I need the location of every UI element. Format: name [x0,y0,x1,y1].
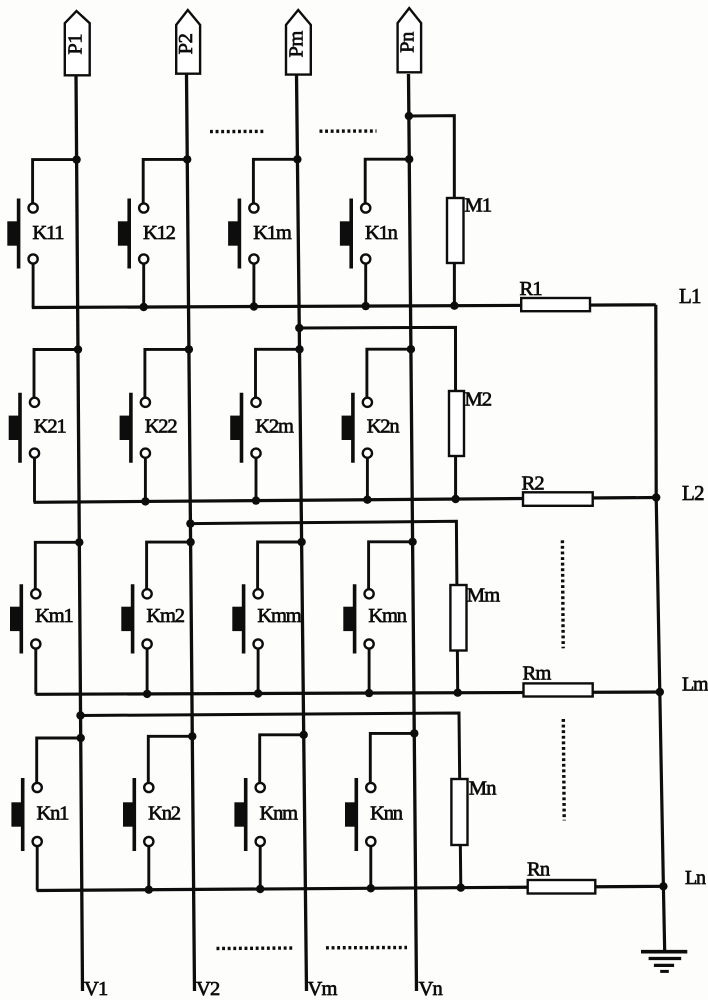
node junction Pn/M1 feed [405,112,413,120]
node junction Pm/K2m branch [295,345,303,353]
wire row line L2 (switch commons to R2) [34,498,657,503]
svg-text:Ln: Ln [685,867,706,889]
node junction P1/Kn1 branch [77,734,85,742]
svg-text:Rm: Rm [523,663,552,685]
wire switch K2m bottom lead [255,453,258,500]
svg-text:Km2: Km2 [146,605,184,627]
node junction K2m/row line L2 [252,496,260,504]
wire switch K1n bottom lead [364,259,367,306]
wire switch K2n bottom lead [366,453,369,500]
svg-text:K12: K12 [143,222,176,244]
node junction Km2/row line Lm [143,690,151,698]
wire row line Ln (switch commons to Rn) [37,886,664,890]
node junction M1/row L1 [450,302,458,310]
wire row line Lm (switch commons to Rm) [36,692,660,694]
svg-text:Vn: Vn [419,978,443,1000]
node junction Pn/Knn branch [410,729,418,737]
wire switch Kmm bottom lead [257,644,260,694]
svg-text:Pm: Pm [286,31,308,58]
switch K21 (push button) [9,393,39,463]
dotted continuation (top columns, between P2 and Pm) [210,130,264,134]
dotted continuation (rows, between L2 and Lm) [561,540,565,648]
svg-text:Mn: Mn [469,778,496,800]
wire switch K1m top branch [253,159,297,208]
switch K2m (push button) [230,393,260,463]
wire switch K21 top branch [34,350,78,403]
resistor Rm [524,683,593,696]
wire switch K22 top branch [145,349,189,402]
svg-text:K21: K21 [34,416,67,438]
switch Kn2 (push button) [123,778,153,851]
node junction P2/Kn2 branch [188,732,196,740]
switch Knm (push button) [234,778,264,851]
svg-text:L2: L2 [682,481,704,505]
node junction Kn2/row line Ln [145,886,153,894]
resistor Mn [451,779,467,845]
svg-text:V2: V2 [196,978,220,1000]
wire output bus L1-L2-Lm-Ln down to ground [656,305,665,952]
node junction Mm/row Lm [454,689,462,697]
node junction Kmn/row line Lm [365,689,373,697]
dotted continuation (bottom columns, between V2 and Vm) [217,946,294,950]
node junction Pm/M2 feed [295,324,303,332]
svg-text:Knm: Knm [260,803,299,825]
node junction Pn/K2n branch [407,345,415,353]
resistor M1 [447,198,464,263]
svg-text:M2: M2 [465,389,492,411]
svg-text:Lm: Lm [682,674,708,696]
wire switch K11 bottom lead [32,259,35,308]
wire row line L1 (switch commons to R1) [32,305,656,308]
svg-text:Km1: Km1 [35,605,73,627]
node junction P1/Mn feed [76,711,84,719]
resistor M2 [449,391,464,456]
switch Kmm (push button) [232,584,262,653]
wire switch Kmm top branch [258,542,302,594]
node junction K12/row line L1 [140,303,148,311]
wire switch Km1 top branch [35,542,79,594]
node junction Pn/Kmn branch [408,538,416,546]
node junction Lm/bus [656,688,664,696]
wire switch Kn1 bottom lead [36,842,39,891]
svg-text:K22: K22 [145,416,178,438]
node junction M2/row L2 [451,495,459,503]
svg-text:Knn: Knn [370,803,403,825]
node junction K1m/row line L1 [250,302,258,310]
node junction K22/row line L2 [141,497,149,505]
svg-text:K11: K11 [32,222,64,244]
node junction Pn/K1n branch [405,155,413,163]
svg-text:P1: P1 [64,34,86,55]
wire column P2 (vertical bus P2 to V2) [187,74,195,991]
dotted continuation (bottom columns, between Vm and Vn) [326,946,407,950]
terminal flag P2 [176,10,200,74]
wire switch Knn bottom lead [369,842,372,889]
node junction Pm/Kmm branch [297,538,305,546]
terminal flag Pm [286,10,311,75]
wire switch K2n top branch [367,349,411,402]
wire switch Knm top branch [260,735,304,788]
switch Kn1 (push button) [11,778,41,851]
wire Mn feed from P1 and drop to row Ln [81,713,461,888]
wire column Pn (vertical bus Pn to Vn) [409,74,417,991]
svg-text:Rn: Rn [527,859,550,881]
wire switch K12 top branch [143,159,187,208]
wire column P1 (vertical bus P1 to V1) [76,74,83,991]
node junction Knm/row line Ln [256,885,264,893]
switch K12 (push button) [118,199,148,269]
svg-text:V1: V1 [84,978,108,1000]
wire column Pm (vertical bus Pm to Vm) [297,74,307,991]
node junction Mn/row Ln [457,884,465,892]
wire switch K2m top branch [256,349,300,402]
wire switch K1n top branch [365,159,409,208]
wire switch Kmn top branch [369,542,413,594]
svg-text:K1n: K1n [365,222,398,244]
wire M1 feed from Pn and drop to row L1 [409,116,455,306]
wire switch K21 bottom lead [33,453,36,502]
svg-text:Pn: Pn [397,32,419,53]
switch Knn (push button) [345,778,375,851]
node junction P1/K21 branch [74,345,82,353]
node junction L2/bus [652,493,660,501]
switch Km2 (push button) [121,584,151,653]
ground [641,952,687,972]
dotted continuation (top columns, between Pm and Pn) [320,129,377,133]
svg-text:L1: L1 [679,284,701,308]
switch K1n (push button) [340,199,370,269]
node junction K2n/row line L2 [363,496,371,504]
wire Mm feed from P2 and drop to row Lm [190,521,457,692]
wire switch K11 top branch [33,160,77,208]
resistor Mm [450,585,466,651]
svg-text:Kmm: Kmm [257,605,301,627]
wire switch Kn2 top branch [148,736,192,787]
resistor R2 [523,492,593,506]
node junction P2/Km2 branch [186,538,194,546]
wire switch Km2 top branch [147,542,191,594]
terminal flag Pn [398,8,422,72]
node junction Ln/bus [659,882,667,890]
node junction P1/Km1 branch [75,538,83,546]
switch K22 (push button) [120,393,150,463]
svg-text:R1: R1 [520,278,543,300]
svg-text:Vm: Vm [308,978,338,1000]
wire switch Km2 bottom lead [146,644,149,694]
wire switch Kn2 bottom lead [147,842,150,890]
node junction P2/K22 branch [185,345,193,353]
dotted continuation (rows, between Lm and Ln) [562,719,566,821]
wire switch Kn1 top branch [37,738,81,788]
wire switch K22 bottom lead [144,453,147,501]
switch Km1 (push button) [10,584,40,653]
wire switch Knm bottom lead [259,842,262,890]
wire M2 feed from Pm and drop to row L2 [299,327,455,499]
svg-text:Mm: Mm [467,585,500,607]
node junction P2/K12 branch [183,155,191,163]
svg-text:Kn1: Kn1 [37,803,70,825]
resistor Rn [528,880,596,894]
terminal flag P1 [65,11,90,75]
resistor R1 [521,298,590,311]
wire switch K12 bottom lead [142,259,145,307]
switch K1m (push button) [228,199,258,269]
wire switch Kmn bottom lead [368,644,371,693]
node junction P1/K11 branch [72,155,80,163]
svg-text:Kmn: Kmn [368,605,406,627]
wire switch K1m bottom lead [252,259,255,307]
svg-text:K2m: K2m [255,416,294,438]
node junction Pm/K1m branch [293,155,301,163]
svg-text:M1: M1 [465,195,492,217]
svg-text:R2: R2 [522,473,545,495]
wire switch Knn top branch [370,733,414,787]
svg-text:K2n: K2n [367,416,400,438]
switch K2n (push button) [342,393,372,463]
svg-text:Kn2: Kn2 [148,803,181,825]
switch K11 (push button) [7,199,37,269]
node junction K1n/row line L1 [362,302,370,310]
svg-text:P2: P2 [175,33,197,54]
node junction P2/Mm feed [186,519,194,527]
svg-text:K1m: K1m [253,222,292,244]
node junction Pm/Knm branch [300,731,308,739]
wire switch Km1 bottom lead [34,644,37,694]
node junction Knn/row line Ln [367,884,375,892]
node junction Kmm/row line Lm [254,689,262,697]
switch Kmn (push button) [343,584,373,653]
